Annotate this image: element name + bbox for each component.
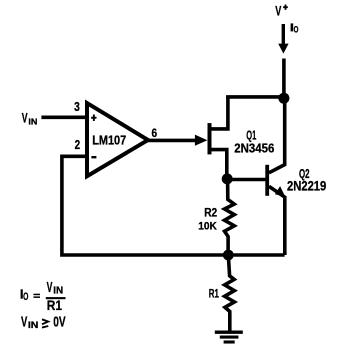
- svg-text:2: 2: [75, 138, 81, 152]
- svg-text:V: V: [21, 315, 28, 331]
- svg-text:2N3456: 2N3456: [234, 141, 274, 156]
- svg-text:10K: 10K: [198, 221, 217, 233]
- svg-text:0V: 0V: [53, 315, 66, 331]
- svg-text:2N2219: 2N2219: [287, 178, 326, 193]
- svg-text:V: V: [47, 280, 53, 296]
- svg-text:V: V: [22, 111, 28, 126]
- svg-text:O: O: [294, 24, 299, 34]
- svg-text:O: O: [23, 291, 29, 303]
- svg-text:R1: R1: [47, 298, 62, 314]
- svg-text:R1: R1: [209, 288, 219, 301]
- svg-text:LM107: LM107: [92, 133, 126, 148]
- svg-text:IN: IN: [53, 286, 63, 297]
- svg-text:6: 6: [152, 126, 158, 140]
- svg-text:3: 3: [74, 100, 80, 114]
- svg-text:R2: R2: [204, 206, 217, 219]
- svg-text:IN: IN: [28, 116, 37, 126]
- svg-text:V: V: [275, 4, 281, 19]
- svg-text:IN: IN: [28, 319, 39, 330]
